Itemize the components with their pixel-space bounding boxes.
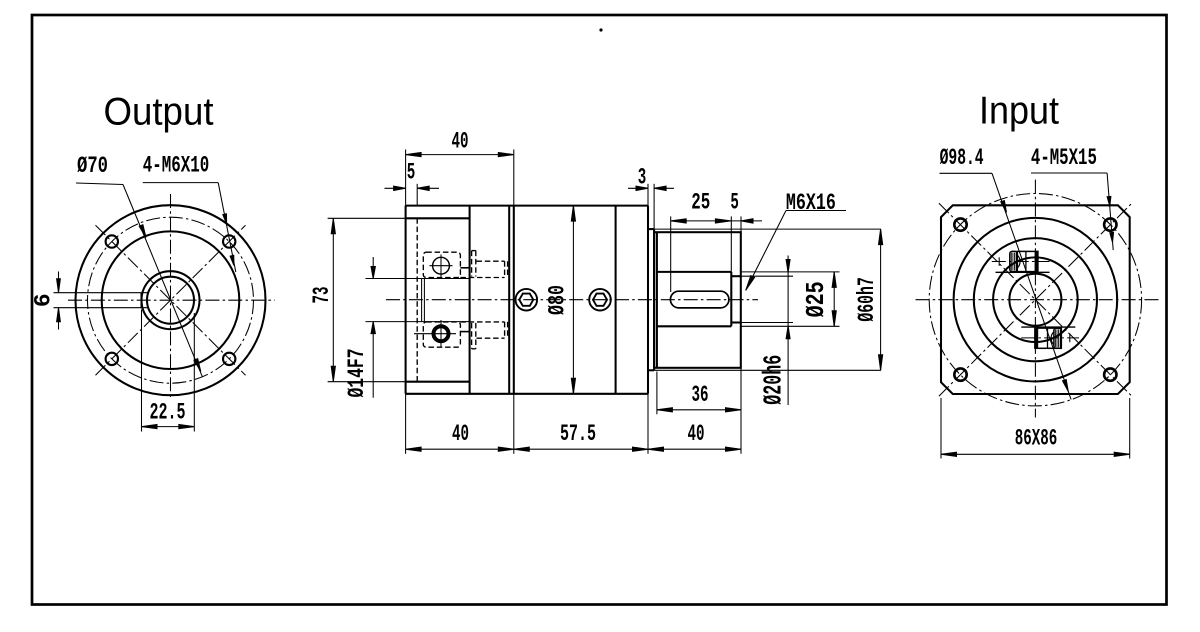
- svg-text:40: 40: [688, 421, 705, 447]
- svg-text:57.5: 57.5: [560, 421, 596, 447]
- svg-text:Ø80: Ø80: [545, 285, 571, 315]
- svg-text:Ø60h7: Ø60h7: [854, 277, 880, 322]
- svg-text:3: 3: [638, 165, 647, 191]
- svg-text:4-M6X10: 4-M6X10: [143, 152, 210, 178]
- svg-text:40: 40: [452, 421, 469, 447]
- svg-text:4-M5X15: 4-M5X15: [1031, 145, 1097, 171]
- svg-text:22.5: 22.5: [150, 399, 186, 425]
- svg-text:25: 25: [691, 189, 710, 215]
- svg-text:Ø20h6: Ø20h6: [758, 355, 788, 405]
- svg-text:Input: Input: [979, 90, 1059, 133]
- svg-text:Ø25: Ø25: [801, 281, 831, 317]
- svg-text:Ø70: Ø70: [77, 153, 108, 179]
- svg-text:86X86: 86X86: [1015, 426, 1058, 452]
- svg-text:Output: Output: [104, 91, 214, 134]
- svg-text:5: 5: [407, 159, 416, 185]
- svg-text:73: 73: [309, 287, 335, 304]
- svg-text:M6X16: M6X16: [786, 190, 836, 216]
- svg-text:Ø98.4: Ø98.4: [940, 145, 984, 171]
- svg-text:6: 6: [30, 293, 56, 307]
- svg-text:5: 5: [730, 189, 739, 215]
- svg-text:40: 40: [452, 129, 469, 155]
- svg-text:36: 36: [692, 382, 709, 408]
- svg-text:Ø14F7: Ø14F7: [344, 349, 370, 398]
